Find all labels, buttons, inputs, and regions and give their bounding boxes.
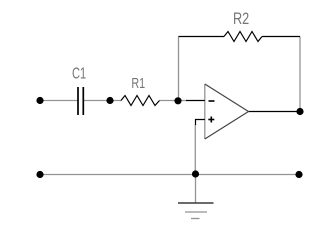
- svg-text:C1: C1: [72, 66, 86, 83]
- svg-text:R1: R1: [131, 75, 145, 92]
- svg-text:R2: R2: [233, 10, 249, 28]
